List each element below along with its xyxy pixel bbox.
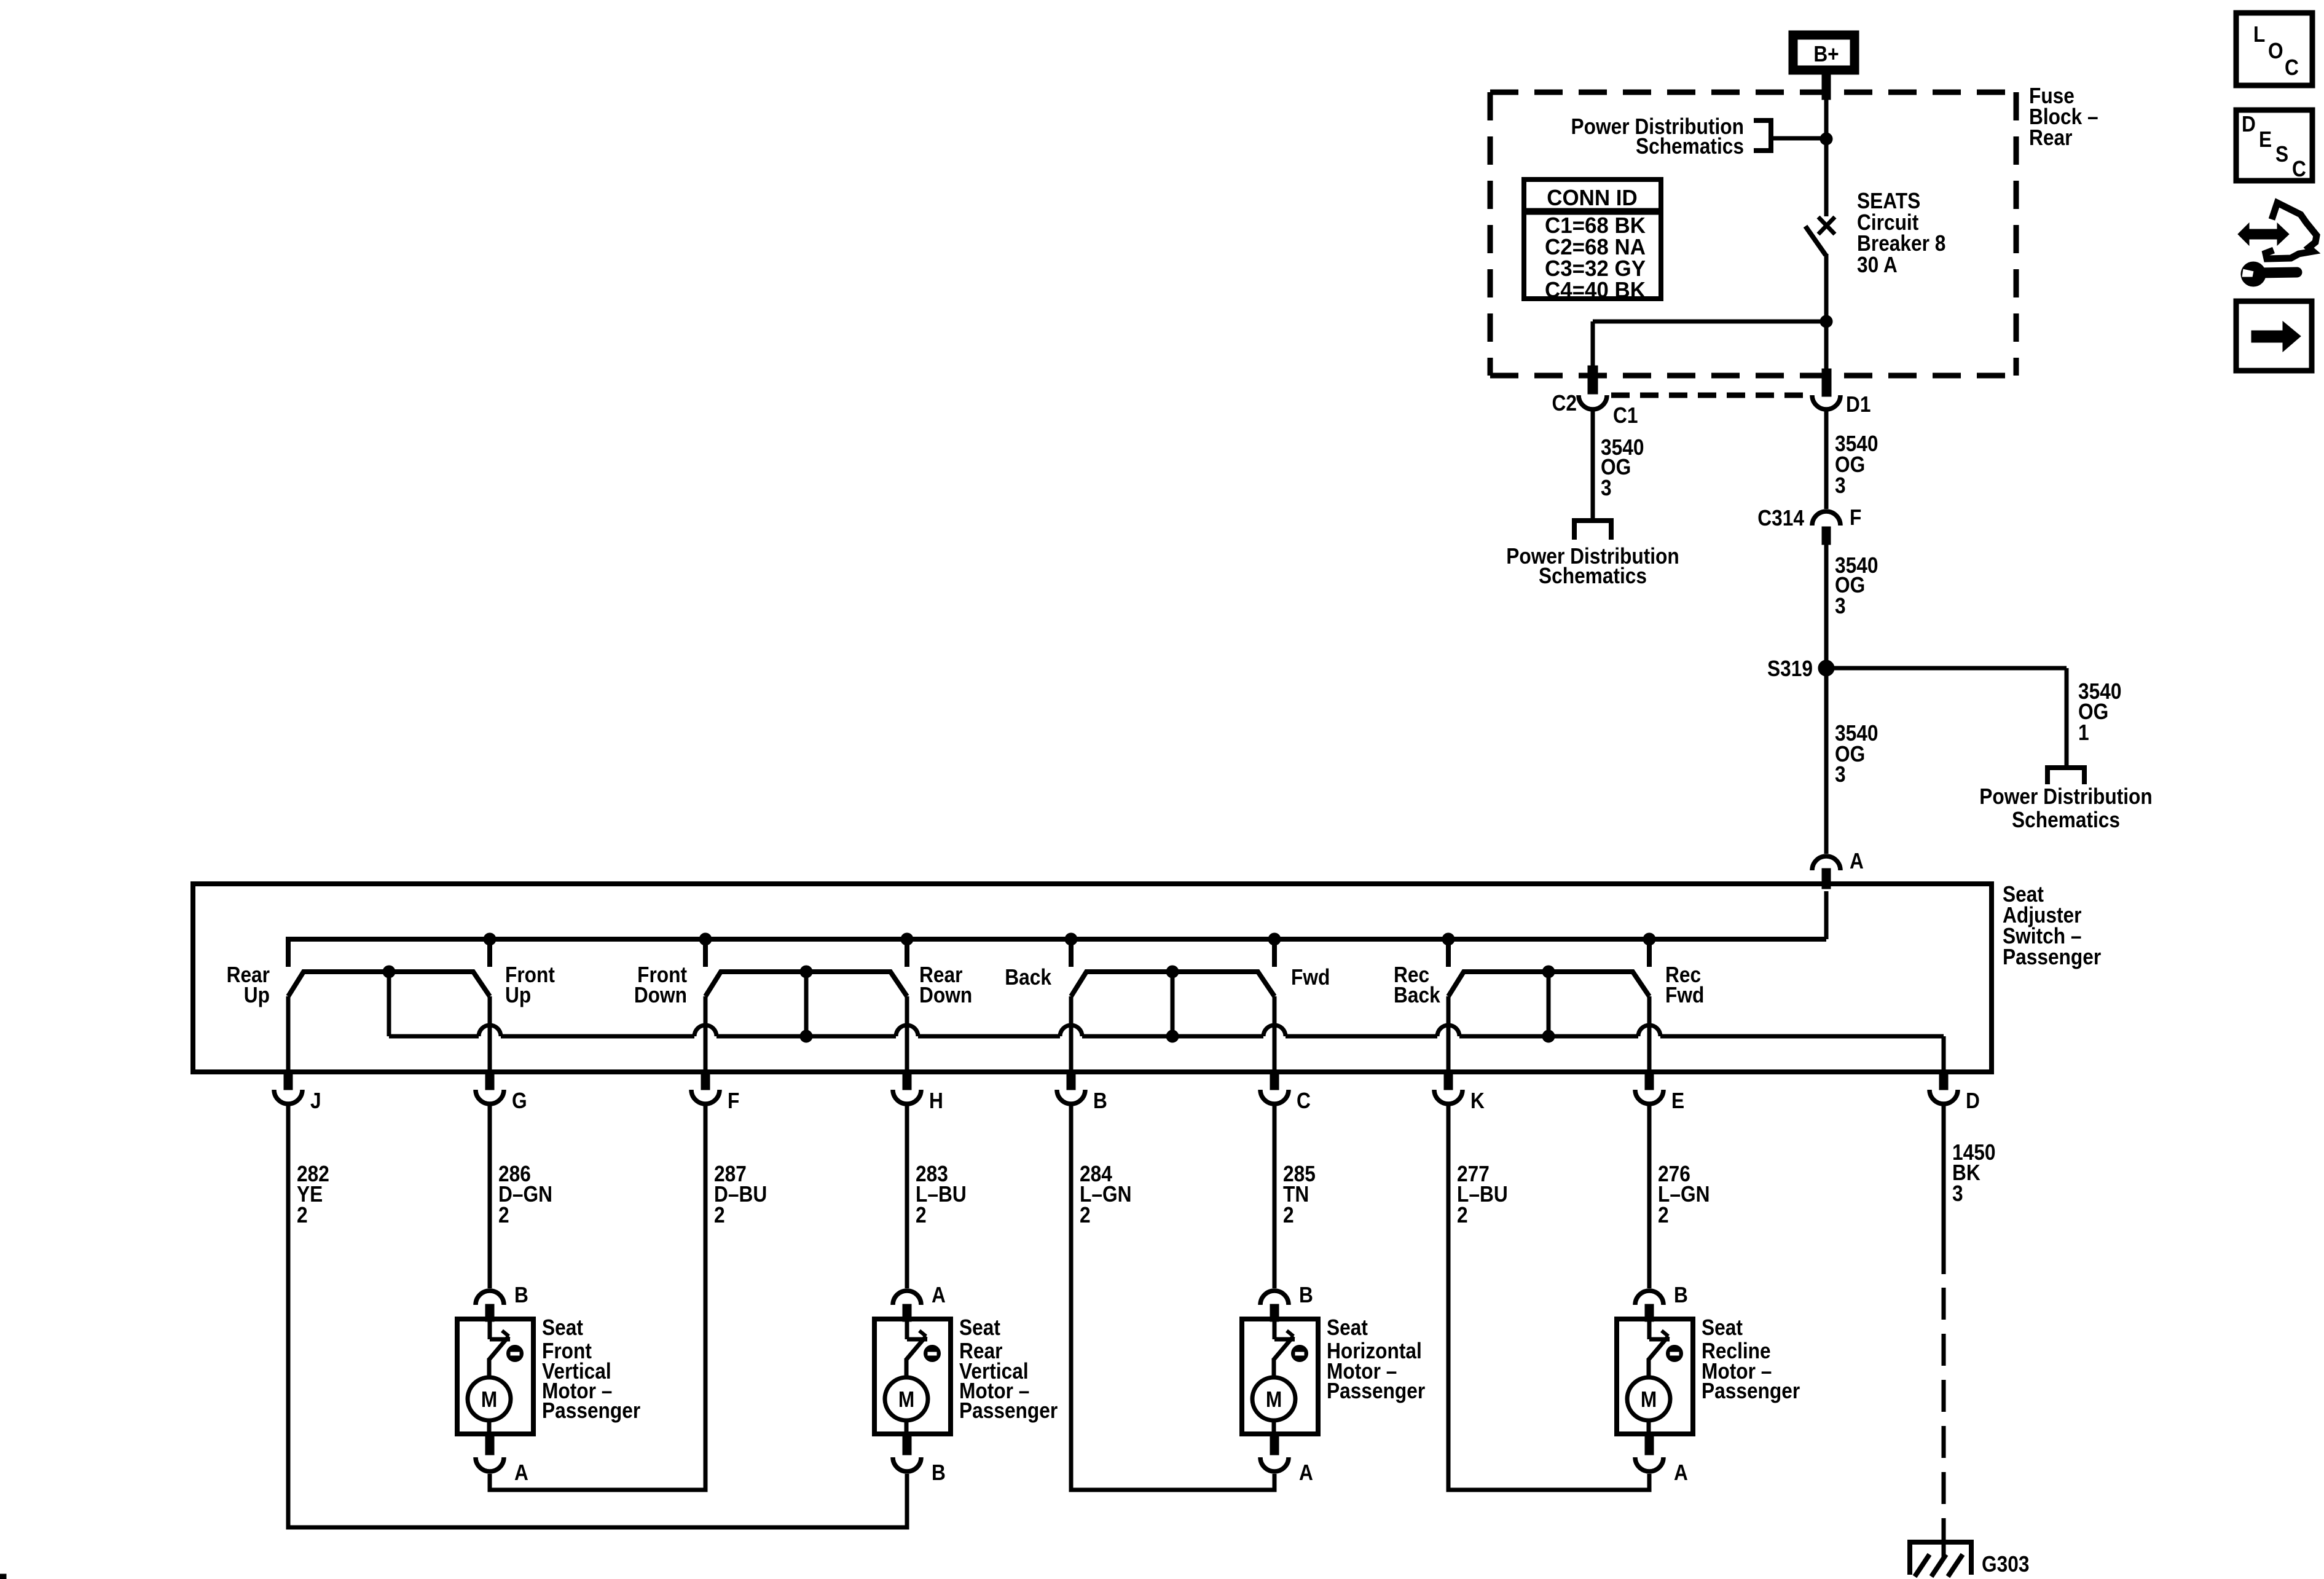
junction dot on B+ feed xyxy=(1820,133,1832,145)
motor 1 thermal cutout switch xyxy=(489,1321,510,1379)
wire 3540 OG 3 C314 to S319 xyxy=(1824,545,1829,668)
switch terminal J pin xyxy=(284,1072,292,1090)
svg-text:M: M xyxy=(898,1387,914,1412)
svg-text:B: B xyxy=(932,1460,946,1485)
switch contact blade pair 3 xyxy=(1071,966,1274,1042)
motor 2 top connector A dome xyxy=(893,1291,921,1305)
motor 3 thermal protector circle-minus xyxy=(1292,1345,1308,1362)
svg-text:G303: G303 xyxy=(1982,1552,2029,1577)
connector C314 dome xyxy=(1812,511,1840,526)
svg-text:S319: S319 xyxy=(1767,656,1813,681)
motor 4 bottom connector A cup xyxy=(1635,1457,1663,1471)
motor 3 bottom connector pin xyxy=(1270,1434,1279,1455)
motor 3 lower lead xyxy=(1272,1420,1276,1435)
svg-text:F: F xyxy=(728,1089,739,1113)
motor 4 (recline) box xyxy=(1617,1319,1693,1434)
svg-text:M: M xyxy=(1266,1387,1282,1412)
switch terminal B cup xyxy=(1057,1090,1085,1104)
wire 277 L-BU (K to recline motor A) xyxy=(1448,1105,1649,1490)
wire 283 L-BU (H to motor A) xyxy=(905,1105,909,1288)
motor 4 M circle xyxy=(1627,1377,1670,1420)
connector D1 pin xyxy=(1822,369,1831,396)
motor 3 M circle xyxy=(1252,1377,1295,1420)
svg-text:3: 3 xyxy=(1952,1181,1963,1206)
motor 2 top connector pin xyxy=(903,1304,911,1321)
svg-text:C1: C1 xyxy=(1613,403,1638,428)
wire - blade corner to terminal x=1148 xyxy=(704,996,708,1072)
label Rear Down xyxy=(919,963,972,1007)
label Front Down xyxy=(634,963,687,1007)
svg-text:O: O xyxy=(2268,39,2283,63)
seat adjuster switch box xyxy=(193,884,1992,1072)
label C1 xyxy=(1613,403,1638,428)
wire - breaker junction down to D1 xyxy=(1824,321,1829,371)
motor 3 top connector pin xyxy=(1270,1304,1279,1321)
label circuit 277 L–BU 2 xyxy=(1457,1162,1508,1227)
wire - blade corner to terminal x=1476 xyxy=(905,996,909,1072)
connector C2 cup xyxy=(1579,395,1607,409)
in-line connector dashed tie C1-D1 xyxy=(1611,393,1808,398)
motor 1 bottom connector pin xyxy=(485,1434,494,1455)
svg-text:A: A xyxy=(1850,849,1864,873)
switch contact blade pair 1 xyxy=(288,966,490,1036)
svg-text:30 A: 30 A xyxy=(1857,253,1898,277)
svg-text:Power Distribution: Power Distribution xyxy=(1979,784,2152,809)
label terminal C xyxy=(1297,1089,1311,1113)
svg-text:Passenger: Passenger xyxy=(959,1398,1058,1423)
wire 3540 OG 3 from C2 xyxy=(1591,409,1595,521)
bus stub contact at x=2357 xyxy=(1446,939,1451,967)
svg-text:Schematics: Schematics xyxy=(2012,808,2120,832)
switch terminal K cup xyxy=(1434,1090,1462,1104)
switch terminal G cup xyxy=(476,1090,504,1104)
svg-text:Schematics: Schematics xyxy=(1636,134,1744,159)
icon forward arrow box xyxy=(2236,301,2312,371)
bus junction dot at x=1476 xyxy=(901,933,913,945)
svg-text:Down: Down xyxy=(919,983,972,1007)
bus junction dot at x=1743 xyxy=(1065,933,1077,945)
motor 2 lower lead xyxy=(905,1420,909,1435)
svg-text:Back: Back xyxy=(1005,965,1051,990)
label circuit 283 L–BU 2 xyxy=(916,1162,967,1227)
svg-text:Seat: Seat xyxy=(1327,1315,1368,1340)
label motor 3 terminal A xyxy=(1299,1460,1313,1485)
label circuit 286 D–GN 2 xyxy=(498,1162,552,1227)
wire - A pin to bus xyxy=(1824,891,1829,939)
label C2 xyxy=(1552,391,1577,415)
motor 3 thermal cutout switch xyxy=(1273,1321,1295,1379)
svg-text:C: C xyxy=(1297,1089,1311,1113)
connector A pin xyxy=(1822,868,1831,889)
motor 3 bottom connector A cup xyxy=(1260,1457,1289,1471)
svg-text:D: D xyxy=(1966,1089,1980,1113)
switch terminal J cup xyxy=(274,1090,302,1104)
label motor 4 name xyxy=(1702,1315,1800,1403)
svg-text:2: 2 xyxy=(498,1203,509,1227)
motor 2 bottom connector pin xyxy=(903,1434,911,1455)
label 3540 OG 3 (above A) xyxy=(1835,721,1878,787)
label motor 1 terminal A xyxy=(514,1460,528,1485)
label 3540 OG 3 (C2 leg) xyxy=(1601,435,1644,500)
svg-text:1: 1 xyxy=(2078,720,2089,745)
ground G303 symbol xyxy=(1907,1530,1974,1577)
switch terminal G pin xyxy=(485,1072,494,1090)
label motor 2 terminal B xyxy=(932,1460,946,1485)
label terminal J xyxy=(310,1089,321,1113)
motor 4 thermal protector circle-minus xyxy=(1666,1345,1683,1362)
switch terminal C cup xyxy=(1260,1090,1289,1104)
switch terminal D cup xyxy=(1929,1090,1958,1104)
bus stub contact at x=2684 xyxy=(1647,939,1652,967)
wire 1450 BK dashed part xyxy=(1942,1288,1946,1537)
svg-text:Fwd: Fwd xyxy=(1291,965,1330,990)
svg-text:C: C xyxy=(2292,157,2306,181)
wire 3540 OG 3 S319 to A xyxy=(1824,668,1829,854)
switch terminal E cup xyxy=(1635,1090,1663,1104)
label motor 3 terminal B xyxy=(1299,1283,1313,1307)
svg-text:D: D xyxy=(2242,112,2256,136)
bus stub contact at x=797 xyxy=(487,939,492,967)
battery feed B+ symbol xyxy=(1793,35,1855,70)
svg-text:3: 3 xyxy=(1835,594,1846,618)
switch internal ground bus with wire hops xyxy=(389,1025,1944,1072)
label terminal D xyxy=(1966,1089,1980,1113)
label Fuse Block - Rear xyxy=(2029,84,2098,150)
motor 2 thermal cutout switch xyxy=(906,1321,927,1379)
switch contact blade pair 2 xyxy=(705,966,907,1042)
wire 284 L-GN (B to horizontal motor A) xyxy=(1071,1105,1274,1490)
switch terminal H cup xyxy=(893,1090,921,1104)
label terminal E xyxy=(1671,1089,1684,1113)
junction dot below breaker xyxy=(1820,315,1832,328)
svg-text:Passenger: Passenger xyxy=(2003,945,2101,969)
label motor 1 name xyxy=(542,1315,640,1423)
svg-text:D1: D1 xyxy=(1846,392,1871,417)
switch terminal F cup xyxy=(691,1090,720,1104)
svg-text:E: E xyxy=(2259,127,2272,152)
circuit breaker CB8 contact x xyxy=(1818,217,1835,234)
label circuit 276 L–GN 2 xyxy=(1658,1162,1710,1227)
label circuit 1450 BK 3 xyxy=(1952,1140,1995,1206)
svg-text:Back: Back xyxy=(1394,983,1440,1007)
svg-text:M: M xyxy=(481,1387,497,1412)
bus junction dot at x=2684 xyxy=(1643,933,1655,945)
svg-text:Up: Up xyxy=(505,983,531,1007)
svg-text:A: A xyxy=(1674,1460,1688,1485)
switch terminal D pin xyxy=(1939,1072,1948,1090)
svg-text:2: 2 xyxy=(1080,1203,1091,1227)
switch B+ bus xyxy=(288,939,1826,967)
circuit breaker CB8 blade xyxy=(1805,226,1826,255)
label Power Distribution Schematics (right) xyxy=(1979,784,2152,832)
label G303 xyxy=(1982,1552,2029,1577)
svg-text:3: 3 xyxy=(1601,476,1612,500)
label terminal G xyxy=(512,1089,527,1113)
motor 4 bottom connector pin xyxy=(1645,1434,1654,1455)
wire - S319 branch to power distribution xyxy=(1826,668,2067,768)
page corner artifact xyxy=(0,1574,6,1579)
svg-text:3: 3 xyxy=(1835,473,1846,498)
svg-text:C2: C2 xyxy=(1552,391,1577,415)
label Back xyxy=(1005,965,1051,990)
label 3540 OG 3 (D1 leg) xyxy=(1835,431,1878,498)
wire 1450 BK (D to G303) solid part xyxy=(1942,1105,1946,1274)
wire - blade corner to terminal x=2074 xyxy=(1273,996,1277,1072)
off-page bracket (right Power Distribution) xyxy=(2045,768,2087,784)
bus junction dot at x=797 xyxy=(484,933,496,945)
label Seat Adjuster Switch - Passenger xyxy=(2003,882,2101,969)
label terminal F xyxy=(728,1089,739,1113)
motor 2 thermal protector circle-minus xyxy=(924,1345,941,1362)
svg-text:2: 2 xyxy=(1283,1203,1294,1227)
switch terminal E pin xyxy=(1645,1072,1654,1090)
wire - breaker to junction xyxy=(1824,254,1829,321)
fuse block dashed outline xyxy=(1490,92,2016,376)
connector D1 cup xyxy=(1812,395,1840,409)
switch terminal B pin xyxy=(1067,1072,1075,1090)
motor 1 thermal protector circle-minus xyxy=(507,1345,524,1362)
wire - blade corner to terminal x=2684 xyxy=(1647,996,1652,1072)
switch terminal H pin xyxy=(903,1072,911,1090)
svg-text:2: 2 xyxy=(1658,1203,1669,1227)
svg-text:Passenger: Passenger xyxy=(1702,1379,1800,1403)
icon service tool (arrow and wrench) xyxy=(2238,203,2317,286)
motor 1 M circle xyxy=(468,1377,511,1420)
svg-text:L: L xyxy=(2253,22,2265,47)
svg-text:Seat: Seat xyxy=(959,1315,1000,1340)
label terminal H xyxy=(929,1089,943,1113)
bus junction dot at x=2074 xyxy=(1268,933,1281,945)
svg-text:C314: C314 xyxy=(1757,506,1804,530)
label D1 xyxy=(1846,392,1871,417)
label Rear Up xyxy=(227,963,270,1007)
svg-text:F: F xyxy=(1850,505,1861,530)
svg-text:C: C xyxy=(2285,55,2299,80)
motor 4 top connector B dome xyxy=(1635,1291,1663,1305)
label circuit 285 TN 2 xyxy=(1283,1162,1316,1227)
label circuit 287 D–BU 2 xyxy=(714,1162,767,1227)
bus stub contact at x=1148 xyxy=(703,939,708,967)
wire 282 YE (J to rear vertical motor B) xyxy=(288,1105,907,1527)
svg-text:2: 2 xyxy=(1457,1203,1468,1227)
svg-text:H: H xyxy=(929,1089,943,1113)
connector A dome xyxy=(1812,856,1840,870)
motor 3 (horizontal) box xyxy=(1242,1319,1318,1434)
svg-text:A: A xyxy=(514,1460,528,1485)
svg-text:Schematics: Schematics xyxy=(1539,564,1647,588)
motor 1 (front) box xyxy=(457,1319,533,1434)
motor 3 top connector B dome xyxy=(1260,1291,1289,1305)
svg-text:B: B xyxy=(1674,1283,1688,1307)
label Front Up xyxy=(505,963,555,1007)
label Power Distribution Schematics (left) xyxy=(1506,544,1679,588)
icon LOC box xyxy=(2236,13,2312,85)
svg-text:CONN ID: CONN ID xyxy=(1547,186,1637,211)
label motor 2 terminal A xyxy=(932,1283,946,1307)
icon DESC box xyxy=(2236,110,2312,181)
switch terminal F pin xyxy=(701,1072,710,1090)
bus stub contact at x=2074 xyxy=(1272,939,1277,967)
svg-text:Down: Down xyxy=(634,983,687,1007)
wire - junction to C2 drop xyxy=(1593,321,1826,371)
connector C2 pin xyxy=(1588,366,1598,394)
bus stub contact at x=1476 xyxy=(905,939,909,967)
label C314 xyxy=(1757,506,1804,530)
label Fwd xyxy=(1291,965,1330,990)
label circuit 282 YE 2 xyxy=(297,1162,329,1227)
motor 2 bottom connector B cup xyxy=(893,1457,921,1471)
wire 285 TN (C to motor B) xyxy=(1273,1105,1277,1288)
connector C314 pin xyxy=(1822,527,1831,545)
bus stub contact at x=1743 xyxy=(1069,939,1074,967)
svg-text:J: J xyxy=(310,1089,321,1113)
svg-text:Up: Up xyxy=(244,983,270,1007)
svg-text:C4=40 BK: C4=40 BK xyxy=(1545,278,1646,303)
label SEATS Circuit Breaker 8 30 A xyxy=(1857,189,1945,277)
wire - blade corner to terminal x=797 xyxy=(488,996,492,1072)
switch terminal C pin xyxy=(1270,1072,1279,1090)
motor 4 lower lead xyxy=(1647,1420,1651,1435)
svg-text:E: E xyxy=(1671,1089,1684,1113)
svg-text:Fwd: Fwd xyxy=(1665,983,1704,1007)
label A (switch feed) xyxy=(1850,849,1864,873)
svg-text:2: 2 xyxy=(297,1203,308,1227)
motor 1 bottom connector A cup xyxy=(476,1457,504,1471)
svg-text:A: A xyxy=(932,1283,946,1307)
label terminal K xyxy=(1470,1089,1485,1113)
svg-text:B: B xyxy=(514,1283,528,1307)
label motor 4 terminal B xyxy=(1674,1283,1688,1307)
switch contact blade pair 4 xyxy=(1448,966,1649,1042)
svg-text:3: 3 xyxy=(1835,762,1846,787)
motor 4 top connector pin xyxy=(1645,1304,1654,1321)
label motor 4 terminal A xyxy=(1674,1460,1688,1485)
wire - B+ pin into fuse block xyxy=(1822,73,1831,216)
label 3540 OG 3 (below C314) xyxy=(1835,553,1878,618)
label Rec Fwd xyxy=(1665,963,1704,1007)
label motor 1 terminal B xyxy=(514,1283,528,1307)
svg-text:S: S xyxy=(2275,142,2288,167)
label S319 xyxy=(1767,656,1813,681)
label terminal B xyxy=(1093,1089,1107,1113)
svg-text:Seat: Seat xyxy=(1702,1315,1743,1340)
label 3540 OG 1 xyxy=(2078,679,2121,745)
wire - blade corner to terminal x=1743 xyxy=(1069,996,1074,1072)
label Power Distribution Schematics (fuse block) xyxy=(1571,114,1744,159)
wire - blade corner to terminal x=469 xyxy=(286,996,291,1072)
wire 286 D-GN (G to motor B) xyxy=(488,1105,492,1288)
svg-text:M: M xyxy=(1641,1387,1657,1412)
motor 1 top connector B dome xyxy=(476,1291,504,1305)
label motor 2 name xyxy=(959,1315,1058,1423)
off-page bracket (left Power Distribution) xyxy=(1572,521,1614,540)
motor 2 M circle xyxy=(885,1377,928,1420)
CONN ID table xyxy=(1524,179,1661,302)
bus junction dot at x=1148 xyxy=(699,933,712,945)
svg-text:B: B xyxy=(1093,1089,1107,1113)
svg-text:A: A xyxy=(1299,1460,1313,1485)
wire - blade corner to terminal x=2357 xyxy=(1447,996,1451,1072)
motor 2 (rear) box xyxy=(874,1319,951,1434)
label F (C314 terminal) xyxy=(1850,505,1861,530)
svg-text:Seat: Seat xyxy=(542,1315,583,1340)
wire 287 D-BU (F to front vertical motor A) xyxy=(490,1105,705,1490)
label circuit 284 L–GN 2 xyxy=(1080,1162,1131,1227)
svg-text:2: 2 xyxy=(916,1203,927,1227)
svg-text:K: K xyxy=(1470,1089,1485,1113)
motor 4 thermal cutout switch xyxy=(1648,1321,1670,1379)
svg-text:G: G xyxy=(512,1089,527,1113)
label motor 3 name xyxy=(1327,1315,1425,1403)
wire 276 L-GN (E to motor B) xyxy=(1647,1105,1652,1288)
motor 1 top connector pin xyxy=(485,1304,494,1321)
svg-text:Passenger: Passenger xyxy=(1327,1379,1425,1403)
switch terminal K pin xyxy=(1444,1072,1453,1090)
wire 3540 OG 3 from D1 xyxy=(1824,409,1829,509)
label Rec Back xyxy=(1394,963,1440,1007)
splice S319 xyxy=(1818,660,1834,676)
svg-text:B+: B+ xyxy=(1813,42,1839,66)
svg-text:B: B xyxy=(1299,1283,1313,1307)
motor 1 lower lead xyxy=(487,1420,492,1435)
svg-text:Rear: Rear xyxy=(2029,125,2072,150)
svg-text:Passenger: Passenger xyxy=(542,1398,640,1423)
svg-text:2: 2 xyxy=(714,1203,725,1227)
bus junction dot at x=2357 xyxy=(1442,933,1454,945)
bracket to Power Distribution Schematics xyxy=(1754,118,1826,153)
